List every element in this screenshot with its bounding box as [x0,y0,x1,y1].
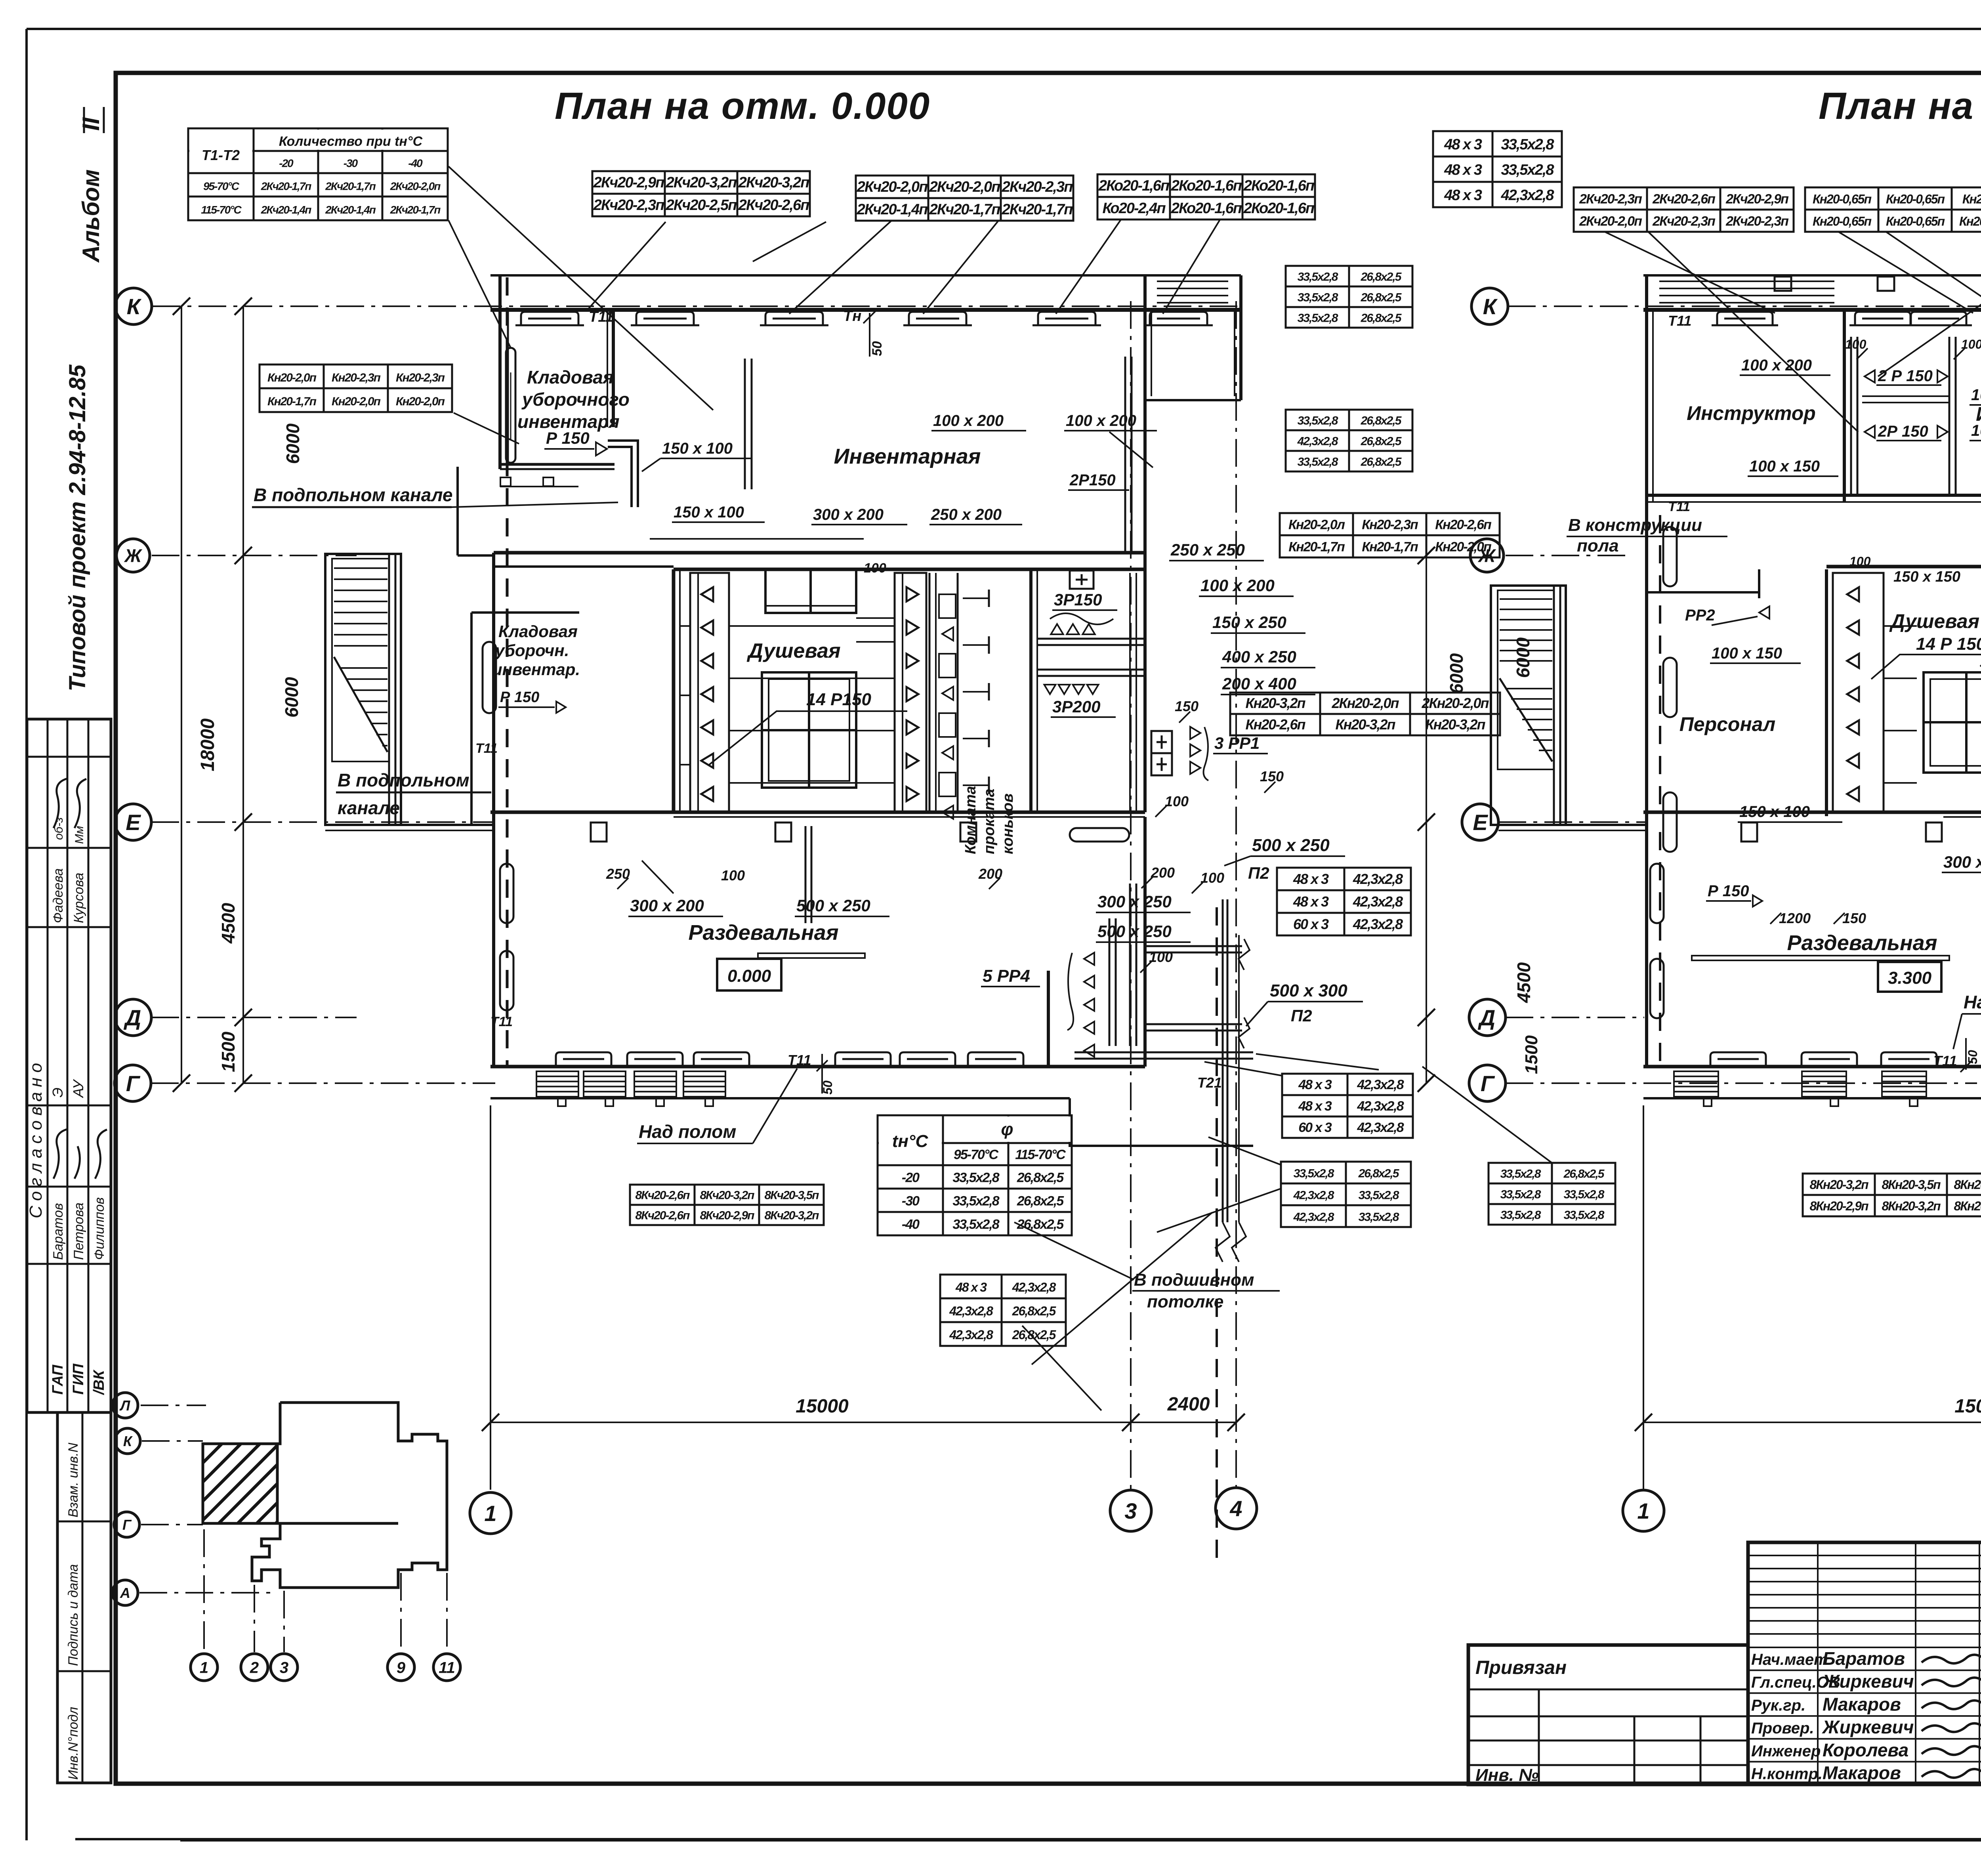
axis column 1 right [1643,1105,1644,1490]
svg-text:150: 150 [1260,768,1284,784]
svg-text:инвентар.: инвентар. [492,660,580,679]
left plan wall radiator capsule [506,348,515,463]
svg-text:8Кч20-2,9п: 8Кч20-2,9п [700,1209,754,1222]
svg-text:60 x 3: 60 x 3 [1298,1120,1332,1135]
svg-text:Т11: Т11 [1668,313,1691,329]
svg-text:2Кч20-2,6п: 2Кч20-2,6п [738,197,809,214]
svg-text:400 x 250: 400 x 250 [1222,647,1296,666]
svg-text:Инвентарная: Инвентарная [834,445,981,468]
svg-text:33,5x2,8: 33,5x2,8 [1298,455,1338,468]
svg-text:6000: 6000 [1446,653,1467,694]
svg-text:Т11: Т11 [475,741,498,756]
svg-text:2Кч20-2,0п: 2Кч20-2,0п [929,179,1000,195]
svg-text:48 x 3: 48 x 3 [1293,893,1329,910]
svg-text:2Кч20-2,9п: 2Кч20-2,9п [1725,191,1789,206]
svg-text:100: 100 [1165,793,1189,809]
vertical dimension line segments left [242,306,244,1083]
table Кн20-2,0л between plans [1280,513,1500,557]
svg-text:К: К [123,1433,133,1449]
svg-text:Р 150: Р 150 [500,689,539,706]
left plan section 3Р150 plus box [1070,571,1094,589]
key plan axis column 11 [446,1573,448,1652]
svg-text:48 x 3: 48 x 3 [1444,162,1482,178]
left plan wall right of Душевая [1029,569,1032,812]
svg-text:33,5x2,8: 33,5x2,8 [1500,1188,1541,1201]
left plan duct pair in Раздевальная [805,826,807,923]
svg-text:Подпись и дата: Подпись и дата [66,1564,81,1666]
svg-text:300 x 200: 300 x 200 [1943,853,1981,871]
svg-text:2Кч20-2,0п: 2Кч20-2,0п [857,179,928,195]
left plan bench bar [758,953,865,958]
table 33,5 right of left plan upper [1286,266,1412,328]
svg-text:33,5x2,8: 33,5x2,8 [1298,311,1338,324]
svg-text:48 x 3: 48 x 3 [1298,1077,1332,1092]
svg-text:Кладовая: Кладовая [527,367,614,387]
svg-text:26,8x2,5: 26,8x2,5 [1012,1328,1057,1342]
svg-text:3 РР1: 3 РР1 [1214,734,1260,752]
svg-text:Г: Г [122,1517,132,1533]
svg-text:Кн20-2,3п: Кн20-2,3п [1362,517,1418,532]
svg-text:100 x 150: 100 x 150 [1712,645,1782,662]
svg-text:Душевая: Душевая [746,639,840,662]
svg-text:2Кн20-2,0п: 2Кн20-2,0п [1422,695,1489,711]
svg-text:Макаров: Макаров [1823,1694,1901,1714]
svg-text:Ж: Ж [124,546,143,566]
right plan Раздевальная capsules [1650,864,1664,923]
left plan top-right vestibule walls [1143,275,1147,569]
svg-text:Макаров: Макаров [1823,1763,1901,1783]
table 48x3 bottom centre [940,1275,1066,1346]
axis row Д left [151,1017,357,1018]
svg-text:Л: Л [119,1397,131,1414]
svg-text:150: 150 [1175,698,1199,714]
svg-text:8Кч20-3,2п: 8Кч20-3,2п [700,1189,754,1202]
svg-text:К: К [1483,294,1498,319]
svg-text:42,3x2,8: 42,3x2,8 [1357,1077,1404,1092]
svg-text:33,5x2,8: 33,5x2,8 [1500,1167,1541,1180]
svg-text:2Кч20-2,3п: 2Кч20-2,3п [1002,179,1073,195]
svg-text:2Кч20-1,4п: 2Кч20-1,4п [261,204,312,216]
svg-text:2Кч20-3,2п: 2Кч20-3,2п [738,174,809,191]
svg-text:Фадеева: Фадеева [51,868,66,923]
left plan Душевая shelf lines [729,625,895,627]
svg-text:Г: Г [1481,1071,1495,1096]
table 48x3 mid right of left plan [1277,868,1411,935]
left plan plus boxes right corridor [1151,731,1172,753]
axis row Г left [151,1082,495,1084]
svg-text:2Кн20-2,0п: 2Кн20-2,0п [1332,695,1399,711]
svg-text:2Кч20-2,0п: 2Кч20-2,0п [390,180,441,192]
svg-text:33,5x2,8: 33,5x2,8 [952,1170,999,1185]
svg-text:Инструктор: Инструктор [1687,402,1816,424]
table 33,5 right of left plan lower [1286,410,1412,471]
table top-left 1 [592,171,810,216]
svg-text:500 x 300: 500 x 300 [1270,981,1347,1000]
horizontal dimension line right plan [1643,1422,1981,1423]
axis circle Ж left [116,539,150,572]
svg-text:Душевая: Душевая [1889,610,1979,632]
svg-text:3.300: 3.300 [1888,968,1932,988]
svg-text:33,5x2,8: 33,5x2,8 [1501,136,1555,153]
left plan Душевая left wall [672,569,676,812]
svg-text:42,3x2,8: 42,3x2,8 [1357,1120,1404,1135]
left plan Раздевальная capsules right plan style [1070,828,1129,842]
key plan axis К [142,1440,203,1442]
svg-text:АУ: АУ [70,1079,86,1098]
svg-text:100 x 200: 100 x 200 [933,412,1004,429]
leader lines top tables left plan [586,222,666,311]
left plan top outer wall line [490,274,1241,277]
svg-text:Раздевальная: Раздевальная [1787,931,1937,955]
svg-text:Э: Э [50,1088,66,1097]
svg-text:Персонал: Персонал [1679,713,1775,735]
svg-text:26,8x2,5: 26,8x2,5 [1361,455,1402,468]
axis circle Д right [1469,999,1506,1036]
svg-text:1: 1 [200,1659,208,1676]
svg-text:2Ко20-1,6п: 2Ко20-1,6п [1243,177,1315,194]
svg-text:3Р150: 3Р150 [1054,590,1102,609]
svg-text:2Кч20-2,0п: 2Кч20-2,0п [1579,214,1642,229]
axis row Ж right [1506,555,1628,556]
svg-text:33,5x2,8: 33,5x2,8 [952,1217,999,1232]
svg-text:48 x 3: 48 x 3 [1444,187,1482,204]
svg-text:250 x 200: 250 x 200 [931,506,1002,523]
left plan 5РР4 triangle column [1084,952,1094,965]
key plan outline [203,1403,447,1588]
svg-text:33,5x2,8: 33,5x2,8 [1359,1211,1399,1224]
table 33,5 bottom right plan 1 [1489,1163,1615,1225]
table Кн20-0,65 top right plan [1805,187,1981,232]
key plan axis Г [141,1524,203,1525]
svg-text:2Кч20-2,3п: 2Кч20-2,3п [1725,214,1789,229]
svg-text:2Ко20-1,6п: 2Ко20-1,6п [1098,177,1170,194]
key plan horizontal wall line [203,1522,398,1525]
left plan П2 duct verticals [1109,918,1111,1046]
svg-text:2Кч20-1,7п: 2Кч20-1,7п [929,201,1000,218]
svg-text:115-70°С: 115-70°С [1015,1147,1066,1162]
svg-text:В конструкции: В конструкции [1568,515,1702,535]
svg-text:26,8x2,5: 26,8x2,5 [1563,1167,1605,1180]
svg-text:проката: проката [981,789,998,854]
svg-text:0.000: 0.000 [727,966,771,986]
svg-text:150 x 100: 150 x 100 [674,504,744,521]
svg-text:1500: 1500 [218,1031,239,1072]
svg-text:Взам. инв.N: Взам. инв.N [66,1443,81,1517]
svg-text:Жиркевич: Жиркевич [1822,1671,1914,1692]
vertical dimension line 18000 left [181,306,182,1083]
svg-text:26,8x2,5: 26,8x2,5 [1361,414,1402,427]
svg-text:Количество при tн°С: Количество при tн°С [279,134,423,149]
right plan top wall clips [1775,277,1791,291]
left plan vestibule hatch [1157,281,1228,282]
sheet outer border [27,28,1981,30]
svg-text:150 x 100: 150 x 100 [662,440,733,457]
axis row Д right [1506,1017,1644,1018]
right plan top wall window hatches [1659,281,1834,282]
svg-text:2Кч20-1,7п: 2Кч20-1,7п [261,180,312,192]
svg-text:1: 1 [484,1501,496,1526]
svg-text:Кн20-2,0л: Кн20-2,0л [1288,517,1345,532]
svg-text:26,8x2,5: 26,8x2,5 [1012,1304,1057,1318]
svg-text:33,5x2,8: 33,5x2,8 [1298,270,1338,283]
left plan bottom wall [490,1065,1145,1069]
left plan bottom outer line [490,1097,1070,1099]
axis row Г right [1506,1082,1977,1084]
right plan Душевая bottom wall [1643,811,1981,814]
right plan bottom wall [1643,1065,1981,1069]
svg-text:2Кч20-1,4п: 2Кч20-1,4п [857,201,928,218]
table Кн20-3,2п between plans [1230,693,1500,735]
svg-text:Комната: Комната [962,786,979,854]
svg-text:100 x 200: 100 x 200 [1200,576,1275,595]
svg-text:Т11: Т11 [490,1014,513,1029]
svg-text:Ко20-2,4п: Ко20-2,4п [1102,200,1166,217]
svg-text:Г: Г [126,1071,141,1096]
svg-text:С о г л а с о в а н о: С о г л а с о в а н о [26,1063,46,1218]
svg-text:Альбом: Альбом [78,170,104,263]
leader Над полом left [753,1069,797,1143]
axis row К dash-dot line right plan [1508,305,1981,307]
svg-text:Кн20-1,7п: Кн20-1,7п [1288,539,1345,554]
left plan shower heads T-column [963,597,989,599]
svg-text:95-70°С: 95-70°С [954,1147,999,1162]
svg-text:18000: 18000 [197,718,218,771]
svg-text:8Кн20-2,9п: 8Кн20-2,9п [1809,1199,1868,1213]
svg-text:42,3x2,8: 42,3x2,8 [949,1328,993,1342]
leader lines top tables right plan [1605,232,1775,313]
svg-text:5 РР4: 5 РР4 [983,966,1030,986]
svg-text:Баратов: Баратов [51,1203,66,1260]
svg-text:300 x 250: 300 x 250 [1097,892,1172,911]
svg-text:2Ко20-1,6п: 2Ко20-1,6п [1171,177,1242,194]
left plan duct column mid [929,573,931,812]
axis column 1 left [490,1105,491,1490]
axis circle Г left [115,1065,151,1101]
svg-text:В подшивном: В подшивном [1134,1270,1254,1290]
svg-text:33,5x2,8: 33,5x2,8 [1298,414,1338,427]
axis bottom circle 1 right [1623,1490,1664,1531]
leader to 48x3 lower table [1204,1062,1282,1076]
svg-text:2400: 2400 [1167,1394,1210,1415]
svg-text:6000: 6000 [282,423,303,464]
svg-text:tн°С: tн°С [892,1132,929,1151]
svg-text:8Кч20-2,6п: 8Кч20-2,6п [635,1189,690,1202]
svg-text:42,3x2,8: 42,3x2,8 [1293,1189,1334,1202]
svg-text:П2: П2 [1291,1006,1312,1025]
left plan bottom grilles [536,1071,578,1097]
right plan Персонал capsules [1663,527,1677,586]
left plan right corridor walls [1143,569,1147,812]
svg-text:33,5x2,8: 33,5x2,8 [952,1193,999,1208]
svg-text:100: 100 [721,867,745,884]
svg-text:Н.контр.: Н.контр. [1751,1765,1823,1783]
svg-text:2Кч20-1,4п: 2Кч20-1,4п [325,204,376,216]
left plan lower-right duct run [1074,1052,1253,1053]
svg-text:Т11: Т11 [589,309,614,325]
svg-text:Р 150: Р 150 [1708,882,1749,900]
left plan Душевая upper window [765,569,856,613]
svg-text:В подпольном: В подпольном [338,770,469,790]
svg-text:2Кч20-2,3п: 2Кч20-2,3п [593,197,664,214]
svg-text:1500: 1500 [1522,1035,1541,1074]
axis circle К left [115,288,152,324]
right plan Раздевальная left wall [1645,502,1648,1068]
left plan top wall radiators [521,312,578,325]
left plan Душевая top wall [674,568,1145,571]
right plan stairwell [1491,586,1566,825]
horizontal dimension line left plan [490,1422,1236,1423]
svg-text:42,3x2,8: 42,3x2,8 [1293,1211,1334,1224]
label 3РР1 bracket [1190,727,1200,739]
right plan Е axis lower walls [1498,824,1647,826]
svg-text:42,3x2,8: 42,3x2,8 [1353,916,1403,932]
svg-text:потолке: потолке [1147,1292,1223,1311]
svg-text:100: 100 [1845,337,1866,351]
right plan dashed riser [1659,515,1661,816]
svg-text:Рук.гр.: Рук.гр. [1751,1697,1805,1714]
svg-text:33,5x2,8: 33,5x2,8 [1564,1208,1605,1221]
svg-text:26,8x2,5: 26,8x2,5 [1361,435,1402,448]
svg-text:42,3x2,8: 42,3x2,8 [1297,435,1338,448]
svg-text:А: А [120,1585,130,1601]
svg-text:Провер.: Провер. [1751,1720,1814,1737]
svg-text:50: 50 [821,1080,835,1095]
svg-text:8Кн20-3,2п: 8Кн20-3,2п [1954,1199,1981,1213]
sheet outer bottom line [75,1838,1981,1840]
left plan wall Кладовая/Инвентарная [612,310,615,427]
svg-text:Кн20-1,7п: Кн20-1,7п [267,395,317,408]
left plan riser pair mid [744,359,746,489]
kladovaya capsule radiator [483,642,496,713]
svg-text:26,8x2,5: 26,8x2,5 [1017,1217,1064,1232]
left plan bottom benches [556,1052,611,1066]
svg-text:300 x 200: 300 x 200 [813,506,884,523]
svg-text:500 x 250: 500 x 250 [796,896,870,915]
left plan Душевая bottom wall / Раздевальная top [490,811,1145,814]
svg-text:300 x 200: 300 x 200 [630,896,704,915]
svg-text:Кн20-0,9п: Кн20-0,9п [1962,192,1981,206]
svg-text:100 x 150: 100 x 150 [1749,458,1820,475]
axis bottom circle 3 left [1110,1490,1151,1531]
svg-text:14 Р150: 14 Р150 [806,690,871,709]
svg-text:95-70°С: 95-70°С [203,180,240,192]
svg-text:ГИП: ГИП [70,1363,87,1395]
table 48x3 top right plan [1433,131,1562,207]
duct elbow below Кладовая [608,441,638,507]
svg-text:Филиппов: Филиппов [92,1197,107,1260]
svg-text:-30: -30 [902,1193,920,1208]
svg-text:2Ко20-1,6п: 2Ко20-1,6п [1243,200,1315,217]
left plan triangles up [1051,624,1063,634]
table Т1-Т2 Количество при tн°С [188,128,448,220]
axis circle Д left [115,999,151,1036]
left plan Раздевальная left wall [492,553,495,1068]
svg-text:2Кч20-2,3п: 2Кч20-2,3п [1579,191,1642,206]
svg-text:6000: 6000 [1513,637,1533,678]
key plan hatched block [203,1444,277,1523]
svg-text:42,3x2,8: 42,3x2,8 [1501,187,1555,204]
svg-text:Инв.N°подл: Инв.N°подл [66,1707,81,1780]
svg-text:-20: -20 [279,157,294,169]
svg-text:Кн20-0,65п: Кн20-0,65п [1886,192,1945,206]
svg-text:Королева: Королева [1823,1740,1908,1760]
svg-text:Кн20-2,0п: Кн20-2,0п [396,395,445,408]
svg-text:42,3x2,8: 42,3x2,8 [1012,1280,1056,1294]
svg-text:48 x 3: 48 x 3 [1444,136,1482,153]
right plan Душевая window big [1924,672,1981,773]
svg-text:2Р150: 2Р150 [1069,471,1116,489]
axis row К dash-dot line left plan [153,305,1241,307]
svg-text:2Кч20-2,9п: 2Кч20-2,9п [593,174,664,191]
svg-text:3: 3 [1124,1498,1137,1523]
right plan top inner wall line [1643,308,1981,312]
strip signature squiggles [53,779,67,828]
svg-text:Кн20-2,0п: Кн20-2,0п [1435,539,1492,554]
svg-text:33,5x2,8: 33,5x2,8 [1501,162,1555,178]
svg-text:Над полом: Над полом [1964,992,1981,1012]
svg-text:-30: -30 [344,157,358,169]
table 2Кч20 top right plan 1 [1574,187,1794,232]
svg-text:пола: пола [1577,536,1619,555]
svg-text:14 Р 150: 14 Р 150 [1916,634,1981,654]
key plan axis column 3 [283,1591,285,1652]
svg-text:План на отм. 0.000: План на отм. 0.000 [555,85,930,127]
svg-text:150: 150 [1842,910,1866,926]
svg-text:об-з: об-з [52,817,65,840]
svg-text:Е: Е [1473,810,1488,835]
svg-text:150 x 150: 150 x 150 [1893,569,1960,585]
left plan Раздевальная riser capsules [500,864,513,923]
svg-text:Е: Е [126,810,141,835]
svg-text:42,3x2,8: 42,3x2,8 [1353,893,1403,910]
svg-text:1200: 1200 [1779,910,1811,926]
elevation box 3.300 [1878,962,1941,992]
svg-text:Кн20-3,2п: Кн20-3,2п [1426,716,1486,733]
svg-text:8Кч20-3,2п: 8Кч20-3,2п [764,1209,819,1222]
svg-text:100 x 200: 100 x 200 [1971,386,1981,404]
svg-text:33,5x2,8: 33,5x2,8 [1294,1167,1334,1180]
right plan bottom benches [1710,1052,1766,1066]
left plan Душевая central window [762,672,856,788]
svg-text:Т1-Т2: Т1-Т2 [202,147,240,163]
svg-text:Типовой проект 2.94-8-12.85: Типовой проект 2.94-8-12.85 [65,365,90,691]
svg-text:Кн20-1,7п: Кн20-1,7п [1362,539,1418,554]
left plan Инвентарная bottom wall [494,551,1145,555]
key plan axis column 1 [203,1529,205,1652]
svg-text:2Кч20-1,7п: 2Кч20-1,7п [390,204,441,216]
axis bottom circle 4 left [1216,1488,1257,1529]
key plan axis column 2 [254,1585,255,1652]
svg-text:Кн20-2,0п: Кн20-2,0п [267,371,317,384]
svg-text:План на отм. 3.300: План на отм. 3.300 [1819,85,1981,127]
left plan shower stall column left [690,573,729,812]
svg-text:50: 50 [1966,1050,1980,1064]
left plan stair annex bottom wall [325,824,494,826]
svg-text:15000: 15000 [1954,1396,1981,1417]
svg-text:Нач.мает: Нач.мает [1751,1651,1828,1668]
title block: left section Привязан [1468,1645,1748,1784]
svg-text:3: 3 [280,1659,288,1676]
table 8Кн20 bottom right plan [1803,1174,1981,1216]
svg-text:3Р200: 3Р200 [1052,697,1100,716]
svg-text:Т11: Т11 [1668,499,1690,514]
svg-text:1: 1 [1637,1498,1649,1523]
svg-text:8Кн20-3,5п: 8Кн20-3,5п [1954,1178,1981,1192]
left plan Кладовая уборочн room [470,613,473,825]
svg-text:2Кч20-2,5п: 2Кч20-2,5п [666,197,737,214]
axis row Е right [1498,821,1648,823]
svg-text:6000: 6000 [281,677,302,718]
